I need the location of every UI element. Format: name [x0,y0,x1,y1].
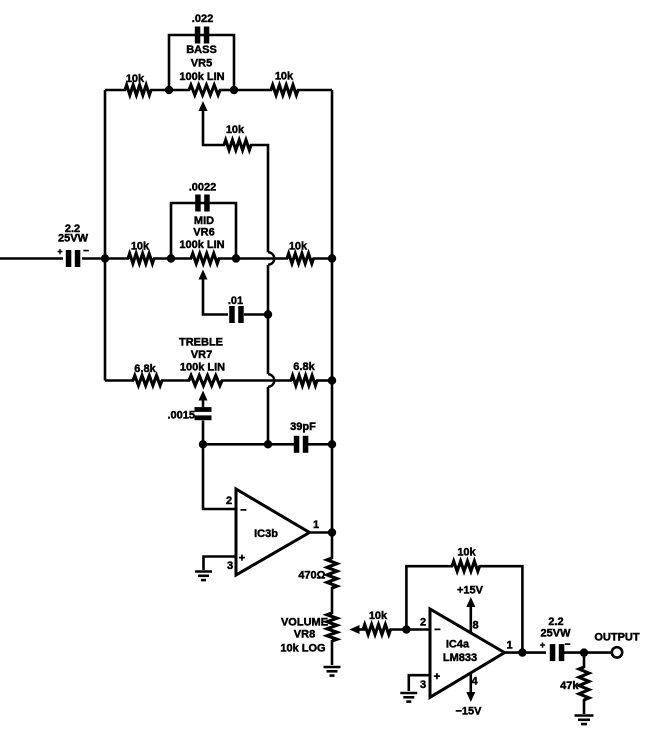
resistor R treble-left 6.8k [133,363,162,386]
wire mid row left [105,257,129,260]
svg-text:LM833: LM833 [443,652,477,664]
svg-text:+: + [434,671,440,683]
resistor R mid-left 10k [128,241,154,264]
node cap row left [199,440,207,448]
svg-text:25VW: 25VW [541,628,572,640]
wire +15V supply [457,585,484,633]
svg-text:100k LIN: 100k LIN [179,239,224,251]
wire feedback right leg [479,566,523,652]
svg-text:MID: MID [194,215,214,227]
resistor R treble-right 6.8k [291,361,317,386]
node cap row middle [264,440,272,448]
wire bass left-res to pot [150,89,170,92]
wire cap row left [203,443,268,446]
wire .0015 to node [202,421,205,445]
wire mid bus segment [267,265,270,315]
wire IC3b output [309,531,332,534]
wire 47k to ground [583,699,586,714]
svg-text:10k: 10k [126,73,145,85]
wire 10k to IC4a pin2 [390,628,431,631]
wire mid row right [236,257,288,260]
resistor R 470 [298,558,337,588]
wire treble right to bus [316,379,332,382]
svg-text:4: 4 [471,676,478,688]
wire 39pF to bus [308,443,332,446]
wire volume pot to ground [331,640,334,665]
wire hop over mid row [268,252,274,265]
potentiometer VR7 wiper arrow [199,391,208,401]
resistor R wiper 10k [224,124,251,150]
ground volume pot [324,667,341,676]
wire bass row left [105,89,126,92]
svg-text:.0015: .0015 [167,410,195,422]
wire mid res to pot [153,257,172,260]
wire to output terminal [584,651,612,654]
wire IC4a output [504,651,546,654]
svg-text:470Ω: 470Ω [298,570,325,582]
svg-text:10k: 10k [275,71,294,83]
svg-text:OUTPUT: OUTPUT [594,632,640,644]
wire mid pot to node [218,257,236,260]
terminal OUTPUT [594,632,640,658]
resistor R mid-right 10k [287,241,313,264]
svg-text:10k LOG: 10k LOG [280,643,325,655]
svg-text:−: − [434,624,440,636]
svg-text:10k: 10k [369,610,388,622]
capacitor C input 2.2/25VW [57,223,89,267]
svg-text:+: + [57,247,62,257]
node bass pot left [165,86,173,94]
wire output cap to node [564,651,584,654]
svg-text:+: + [540,640,546,651]
wire bass cap box [169,35,234,90]
svg-text:IC3b: IC3b [254,528,278,540]
node mid right bus [328,254,336,262]
wire treble wiper to cap [202,399,205,408]
ground IC4a pin3 [400,693,417,702]
wire bass row right [234,89,272,92]
node bass pot right [230,86,238,94]
wire bus to 470R [331,533,334,560]
resistor R series 10k [363,610,391,635]
wire mid node to pot [171,257,192,260]
node output junction [580,648,588,656]
wire input line [0,257,63,260]
svg-text:6.8k: 6.8k [134,363,156,375]
node mid pot right [232,254,240,262]
wire cap row to 39pF [268,443,295,446]
op-amp IC4a LM833 [420,609,513,697]
svg-text:BASS: BASS [186,44,217,56]
wire mid cap box [171,203,236,259]
svg-text:3: 3 [420,679,426,691]
wire treble pot to right res [221,379,292,382]
capacitor C bass .022 [192,13,213,44]
wire input cap to node [82,257,105,260]
svg-text:47k: 47k [560,680,579,692]
wire bass right to bus corner [297,89,332,92]
svg-text:.0022: .0022 [189,182,217,194]
svg-text:100k LIN: 100k LIN [179,71,224,83]
svg-text:+: + [239,553,245,565]
node IC4a output [518,648,526,656]
capacitor C .01 [228,295,244,323]
resistor R bass-left 10k [125,73,151,95]
resistor R bass-right 10k [271,71,298,96]
svg-text:TREBLE: TREBLE [179,337,223,349]
potentiometer VR7 track [179,337,225,386]
svg-text:2.2: 2.2 [548,616,563,628]
svg-text:+15V: +15V [457,585,484,597]
potentiometer VR5 track [179,44,224,95]
capacitor C mid .0022 [189,182,217,212]
wire IC3b noninverting input [204,557,237,571]
wire right bus [331,90,334,533]
wire wiper res to mid bus [250,145,268,252]
capacitor C output 2.2/25VW [540,616,571,661]
node IC4a inverting node [402,625,410,633]
wire bass pot to node [219,89,234,92]
potentiometer VR5 wiper arrow [199,101,208,111]
capacitor C 39pF [290,421,316,453]
potentiometer VR6 track [179,215,224,264]
node IC3b output [328,528,336,536]
potentiometer VR6 wiper arrow [199,270,208,280]
node cap row right bus [328,440,336,448]
svg-text:10k: 10k [226,124,245,136]
svg-text:VR5: VR5 [191,57,212,69]
svg-text:−: − [83,246,89,257]
svg-text:25VW: 25VW [58,233,89,245]
capacitor C .0015 [167,407,211,421]
wire bass wiper down [203,109,225,145]
svg-text:39pF: 39pF [290,421,316,433]
node input junction [101,254,109,262]
node mid pot left [167,254,175,262]
wire hop over treble row [268,374,274,387]
wire 470R to volume pot [331,587,334,614]
wire .01 to bus [244,313,268,316]
svg-text:−: − [240,505,246,517]
svg-text:IC4a: IC4a [446,639,470,651]
svg-text:VR8: VR8 [294,629,315,641]
svg-text:8: 8 [472,620,478,632]
ground IC3b pin3 [195,572,212,581]
svg-text:.022: .022 [192,13,213,25]
svg-text:1: 1 [313,519,319,531]
wire treble res to pot [161,379,190,382]
wire mid wiper down [203,278,228,315]
svg-text:VOLUME: VOLUME [281,617,328,629]
svg-text:10k: 10k [131,241,150,253]
node treble right bus [328,376,336,384]
svg-text:1: 1 [506,640,512,652]
wire -15V supply [456,673,483,718]
potentiometer VR8 wiper arrow [350,625,360,634]
wire node to 47k [583,653,586,668]
wire bass node to pot [169,89,190,92]
wire IC3b inverting input [203,444,236,509]
svg-text:VR7: VR7 [191,349,212,361]
wire treble row left [105,379,134,382]
svg-text:−: − [565,640,571,651]
svg-text:2: 2 [226,495,232,507]
resistor R feedback 10k [452,547,480,572]
potentiometer VR8 track [280,613,337,655]
wire mid bus segment 2 [267,315,270,375]
wire mid right to bus [313,257,333,260]
wire left bus [104,90,107,381]
svg-text:−15V: −15V [456,706,483,718]
ground 47k [575,716,594,725]
svg-text:2: 2 [420,617,426,629]
svg-text:10k: 10k [457,547,476,559]
svg-text:VR6: VR6 [193,227,214,239]
wire IC4a noninverting input [409,675,430,691]
resistor R 47k [560,667,589,700]
wire volume wiper to 10k [358,628,365,631]
svg-text:3: 3 [227,560,233,572]
node .01 junction [264,310,272,318]
wire mid bus segment 3 [267,387,270,445]
svg-text:.01: .01 [228,295,243,307]
wire feedback left leg [406,566,453,629]
svg-text:100k LIN: 100k LIN [180,362,225,374]
svg-text:10k: 10k [289,241,308,253]
op-amp IC3b [226,489,319,575]
svg-text:6.8k: 6.8k [293,361,315,373]
